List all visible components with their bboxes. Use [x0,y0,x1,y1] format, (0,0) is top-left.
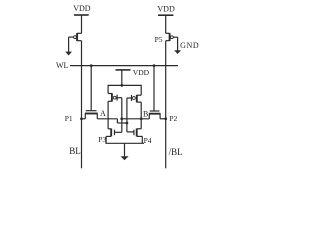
transistor P1 (left access) [82,66,98,119]
svg-text:WL: WL [56,61,69,70]
label BL [69,146,81,156]
svg-text:VDD: VDD [133,68,150,77]
wire V1 cross-couple (left gates down to P3 gate) [121,98,123,133]
wire /BL vertical (right bit line, VDD bar to bottom) [165,15,167,168]
transistor P2 (right access) [149,66,166,119]
power symbol VDD (inner cell) [116,70,131,86]
ground arrow GND (gate of P5) [174,37,181,54]
label WL [56,61,69,70]
node dot VDD stub on cell rail [121,84,124,87]
ground symbol (cell source) [121,143,129,160]
label P2 [169,114,177,123]
wire V2 cross-couple (right gates down to P4 gate) [126,98,128,132]
svg-text:VDD: VDD [157,5,175,14]
transistor P5 (top right) [166,33,178,41]
svg-text:P5: P5 [155,35,163,44]
wire cell bottom rail [105,142,144,144]
label P4 [144,136,152,145]
power symbol VDD (top right) [158,14,173,16]
power symbol VDD (top left) [74,14,89,16]
node dot B-line to V1 [120,117,123,120]
wire left inverter output (to node A column) [107,101,109,129]
transistor PMOS right inverter [127,85,141,103]
ground arrow (gate of top-left transistor) [65,37,72,55]
svg-text:P1: P1 [65,114,73,123]
wire BL vertical (left bit line, VDD bar to bottom) [81,15,83,168]
svg-text:BL: BL [69,146,81,156]
label P3 [98,135,106,144]
svg-text:P2: P2 [169,114,177,123]
transistor PMOS left inverter [108,85,122,102]
label VDD (inner) [133,68,150,77]
node dot P2 on /BL [164,117,167,120]
label /BL [169,147,183,157]
node dot A-line to V2 [126,122,129,125]
svg-text:GND: GND [180,41,199,50]
transistor PMOS top-left (unlabeled) [69,33,82,41]
wire cell top rail [108,84,141,86]
wire WL horizontal [70,65,178,67]
node dot P2 gate on WL [153,64,156,67]
label VDD (top left) [73,4,91,13]
transistor P4 (right pull-down) [127,129,142,144]
label VDD (top right) [157,5,175,14]
wire right inverter output (node B column) [140,102,142,129]
node dot B junction (inverter output) [140,117,143,120]
svg-text:A: A [100,109,106,118]
wire node B horizontal [120,118,149,120]
label B [143,110,148,119]
label P5 [155,35,163,44]
svg-text:P3: P3 [98,135,106,144]
label P1 [65,114,73,123]
svg-text:P4: P4 [144,136,152,145]
label GND [180,41,199,50]
svg-text:/BL: /BL [169,147,183,157]
node dot P1 gate on WL [90,64,93,67]
transistor P3 (left pull-down) [106,129,122,144]
svg-text:B: B [143,110,148,119]
svg-text:VDD: VDD [73,4,91,13]
node dot P1 on BL [80,117,83,120]
wire node A (upper segment with step down) [97,119,127,123]
label A [100,109,106,118]
